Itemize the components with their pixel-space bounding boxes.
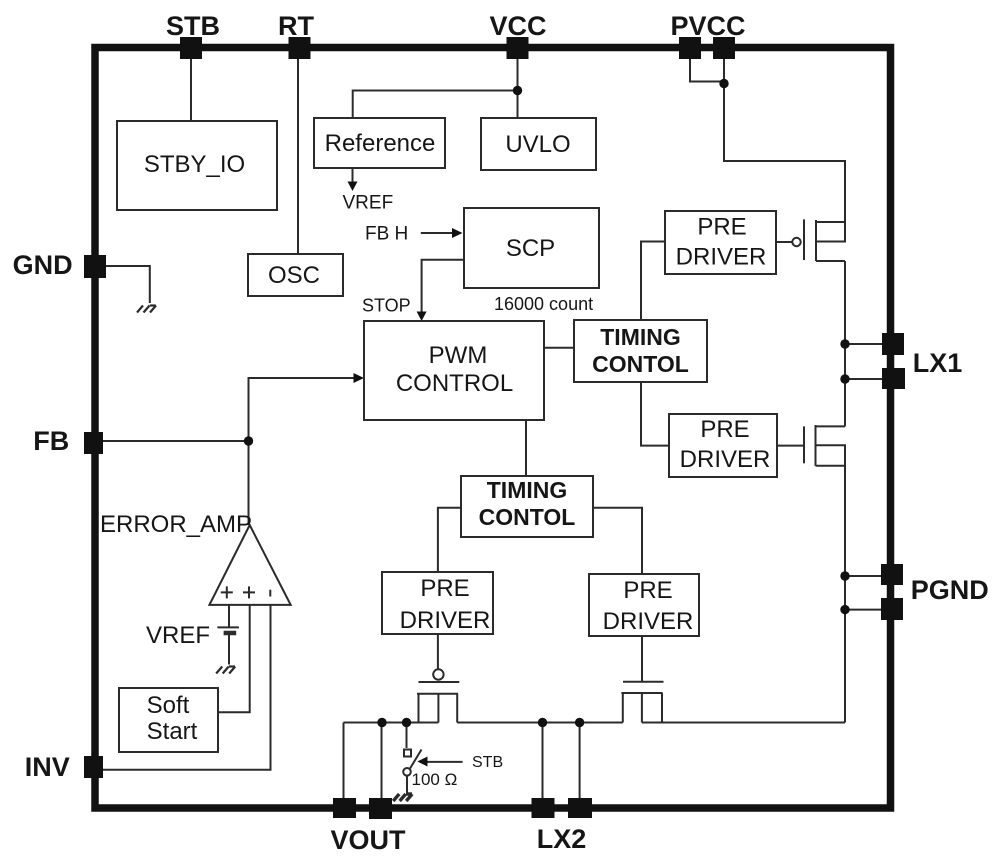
svg-text:PVCC: PVCC [670,11,745,41]
svg-text:FB H: FB H [365,224,408,245]
svg-text:VOUT: VOUT [330,825,406,855]
svg-text:DRIVER: DRIVER [680,446,771,473]
svg-text:Soft: Soft [147,692,190,719]
svg-text:100 Ω: 100 Ω [412,770,458,789]
svg-text:Start: Start [147,718,198,745]
svg-text:PGND: PGND [911,575,989,605]
svg-text:DRIVER: DRIVER [676,244,767,271]
svg-text:FB: FB [33,426,69,456]
svg-text:OSC: OSC [268,262,320,289]
svg-text:DRIVER: DRIVER [400,607,491,634]
svg-text:TIMING: TIMING [487,477,568,503]
svg-text:PRE: PRE [700,416,749,443]
svg-text:STB: STB [472,754,503,771]
svg-text:CONTOL: CONTOL [592,351,689,377]
svg-text:GND: GND [13,250,73,280]
svg-text:Reference: Reference [325,130,436,157]
svg-text:SCP: SCP [506,235,555,262]
svg-text:16000 count: 16000 count [494,294,593,314]
svg-text:LX1: LX1 [913,348,963,378]
svg-text:PRE: PRE [697,214,746,241]
svg-text:PRE: PRE [420,575,469,602]
svg-text:STB: STB [166,11,220,41]
svg-text:DRIVER: DRIVER [603,608,694,635]
svg-text:CONTROL: CONTROL [396,370,513,397]
svg-text:ERROR_AMP: ERROR_AMP [100,511,252,538]
svg-text:TIMING: TIMING [600,324,681,350]
svg-text:PRE: PRE [623,577,672,604]
svg-text:PWM: PWM [429,342,488,369]
svg-text:UVLO: UVLO [505,131,570,158]
svg-text:STBY_IO: STBY_IO [144,151,245,178]
svg-text:CONTOL: CONTOL [479,504,576,530]
svg-text:STOP: STOP [362,296,411,316]
svg-text:VREF: VREF [343,193,394,214]
svg-text:LX2: LX2 [537,824,587,854]
svg-text:VREF: VREF [146,622,210,649]
svg-text:VCC: VCC [489,11,546,41]
svg-text:RT: RT [278,11,314,41]
svg-text:INV: INV [25,752,70,782]
